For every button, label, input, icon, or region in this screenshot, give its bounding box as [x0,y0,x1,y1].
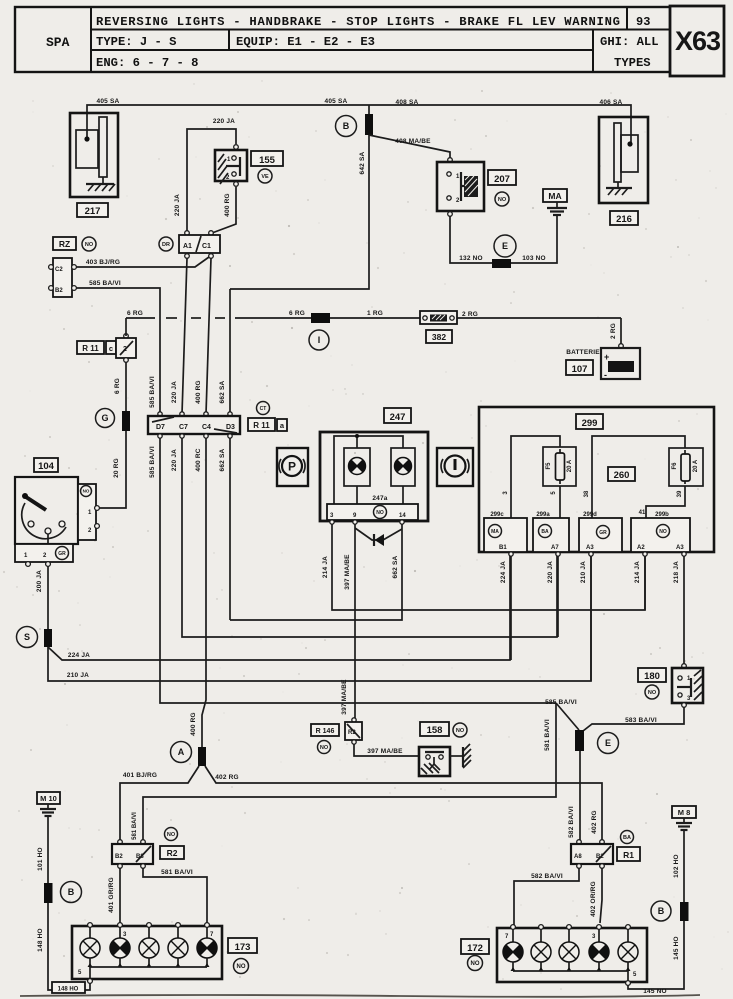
rear lamp cluster 173 [72,923,222,984]
svg-text:M 8: M 8 [678,808,691,817]
circle B (left) [61,882,82,903]
svg-text:132 NO: 132 NO [459,255,483,262]
svg-text:F6: F6 [672,462,678,470]
svg-text:101 HO: 101 HO [37,847,44,871]
label box 180 [638,668,666,682]
svg-text:A1: A1 [183,243,192,250]
wire 101 HO [47,817,49,883]
wire 220 JA from A1 to 155 [187,129,236,233]
svg-text:R2: R2 [167,848,178,858]
wire 662 SA down to D3 [229,289,231,414]
circle NO (RZ) [82,237,96,251]
wire 210 JA [48,556,591,681]
svg-text:NO: NO [167,832,176,838]
label box 299 [576,414,603,429]
wire 582 BA/VI to lamp pin 7 [514,868,579,925]
svg-text:14: 14 [399,513,406,519]
svg-text:NO: NO [659,529,667,535]
splice I (6RG/1RG) [311,313,330,323]
svg-text:NO: NO [648,690,657,696]
label box RZ [53,237,76,250]
svg-text:299b: 299b [655,512,669,518]
wire 214 JA from 247 pin3 [332,524,645,610]
svg-text:NO: NO [498,197,507,203]
svg-text:172: 172 [467,943,483,954]
svg-text:642 SA: 642 SA [359,151,366,174]
svg-text:400 RG: 400 RG [224,193,231,217]
svg-text:397 MA/BE: 397 MA/BE [344,554,351,590]
svg-text:DR: DR [162,242,170,248]
circle NO (R2) [165,828,178,841]
svg-text:EQUIP: E1 - E2 - E3: EQUIP: E1 - E2 - E3 [236,35,375,49]
svg-text:216: 216 [616,214,632,225]
svg-text:38: 38 [584,490,590,497]
wire 200 JA [47,566,49,629]
warning lamp (brake fluid) in 247 [391,448,415,486]
svg-text:1 RG: 1 RG [367,310,383,317]
svg-text:E: E [605,738,611,748]
svg-text:20 A: 20 A [567,459,573,472]
svg-text:220 JA: 220 JA [547,561,554,583]
svg-text:B2: B2 [115,854,123,860]
svg-text:NO: NO [471,961,480,967]
wire 402 RG [205,766,602,842]
svg-text:A3: A3 [586,545,594,551]
wire 581 BA/VI down-left [143,703,556,842]
svg-text:400 RG: 400 RG [195,380,202,404]
svg-text:REVERSING LIGHTS - HANDBRAKE -: REVERSING LIGHTS - HANDBRAKE - STOP LIGH… [96,15,620,29]
svg-text:585 BA/VI: 585 BA/VI [89,280,121,287]
connector 299d (GR A3) [579,518,622,556]
svg-text:180: 180 [644,671,660,682]
svg-text:20 A: 20 A [693,459,699,472]
svg-text:224 JA: 224 JA [500,561,507,583]
svg-text:405 SA: 405 SA [325,98,348,105]
wire 220 JA A1 down to C7 [182,258,187,414]
wire 585 BA/VI from B2 [76,288,160,414]
wire 408 MA/BE to 207 [369,135,450,158]
svg-text:403 BJ/RG: 403 BJ/RG [86,259,120,266]
svg-text:NO: NO [376,510,384,516]
svg-text:220 JA: 220 JA [213,118,235,125]
circle NO (180) [645,685,659,699]
299 internal wiring right [592,436,685,518]
svg-text:MA: MA [491,529,499,535]
svg-text:R 11: R 11 [253,421,270,430]
wire 6 RG down from connector 2 [125,318,127,336]
wire 401 BJ/RG [120,766,199,842]
battery 107 [601,344,640,380]
svg-text:RZ: RZ [59,239,70,249]
svg-text:SPA: SPA [46,35,70,50]
switch 158 (brake fluid level) [419,747,450,776]
svg-text:A2: A2 [637,545,645,551]
svg-text:214 JA: 214 JA [322,556,329,578]
svg-text:S: S [24,632,30,642]
wire 397 MA/BE to 158 [354,744,419,756]
svg-text:582 BA/VI: 582 BA/VI [568,806,575,838]
wire 585 into splice E [556,703,579,730]
svg-text:217: 217 [85,206,101,217]
svg-text:NO: NO [456,728,465,734]
svg-text:C7: C7 [179,424,188,431]
wire 581 BA/VI to lamp pin 7 [143,868,207,923]
circle B (right) [651,901,671,921]
switch 180 (handbrake switch) [672,664,703,708]
fuse F5 20A [543,447,576,486]
wire 582 BA/VI from E to R1 [579,751,581,842]
svg-text:104: 104 [38,461,55,472]
svg-text:X63: X63 [675,26,721,56]
svg-text:148 HO: 148 HO [37,928,44,952]
label box 107 [566,360,593,375]
circle E (upper) [494,235,516,257]
wire 642 SA vertical + to D3 [230,135,369,289]
wire 397 MA/BE from 247 pin9 [354,524,356,719]
svg-text:A7: A7 [551,545,559,551]
switch 104 bottom connector (1,2 GR) [15,544,73,566]
wire 6 RG horizontal (with crossing gaps) [126,317,621,319]
fuse 382 [420,311,457,324]
svg-text:R 11: R 11 [82,344,99,353]
wire 400 RG from 155 to C1 [212,187,236,233]
svg-text:G: G [101,413,108,423]
splice G (6RG/20RG) [122,411,130,431]
svg-text:299: 299 [582,418,598,429]
svg-text:B1: B1 [499,545,507,551]
label box 217 [77,203,108,217]
svg-text:401 BJ/RG: 401 BJ/RG [123,772,157,779]
wire 400 RG C1 down to C4 [206,258,211,414]
warning lamp (handbrake) in 247 [344,448,370,486]
wire 145 HO [628,921,684,989]
splice B (left) [44,883,53,903]
wire 585 BA/VI D7 down [160,438,556,703]
svg-text:247a: 247a [372,495,387,502]
svg-text:GR: GR [599,530,607,536]
svg-text:662 SA: 662 SA [392,555,399,578]
svg-text:B2: B2 [55,288,63,294]
svg-text:408 SA: 408 SA [396,99,419,106]
label box 382 [426,330,452,343]
svg-text:A3: A3 [676,545,684,551]
splice E [575,730,584,751]
instrument cluster 247 box [320,432,428,521]
node B circle [336,116,357,137]
svg-text:145 NO: 145 NO [643,988,667,995]
svg-text:F5: F5 [546,462,552,470]
label box R1 [617,847,640,861]
svg-text:299a: 299a [536,512,550,518]
svg-text:M 10: M 10 [40,794,57,803]
svg-text:200 JA: 200 JA [36,570,43,592]
label box 158 [420,722,449,736]
wire 148 HO [48,903,90,990]
circle BA (R1) [621,831,634,844]
svg-text:260: 260 [614,470,630,481]
svg-text:662 SA: 662 SA [219,380,226,403]
splice S [44,629,52,647]
relay contact 155 [215,145,247,187]
splice A (400 RG) [198,747,206,766]
svg-text:145 HO: 145 HO [673,936,680,960]
svg-text:NO: NO [83,489,90,494]
wire 218 JA to 180 [683,556,685,664]
svg-text:218 JA: 218 JA [673,561,680,583]
svg-text:158: 158 [427,725,443,736]
wire 20 RG to switch 104 [99,431,126,508]
svg-text:581 BA/VI: 581 BA/VI [132,812,138,840]
svg-text:E: E [502,241,508,251]
svg-text:C4: C4 [202,424,211,431]
svg-text:382: 382 [432,332,446,342]
svg-text:214 JA: 214 JA [634,561,641,583]
svg-text:20 RG: 20 RG [113,458,120,478]
svg-text:220 JA: 220 JA [174,194,181,216]
switch 104 side connector (1,2) [78,484,99,540]
circle DR [159,237,173,251]
svg-text:2 RG: 2 RG [610,323,617,339]
connector 247 (3,9,14 NO) [327,504,418,524]
svg-text:c: c [109,344,113,353]
svg-text:D3: D3 [226,424,235,431]
svg-text:155: 155 [259,155,276,166]
ground symbol under MA [547,202,567,215]
wire 400 RG C4 down to A [202,438,206,747]
svg-text:397 MA/BE: 397 MA/BE [341,679,348,715]
svg-text:A: A [178,747,185,757]
svg-text:224 JA: 224 JA [68,652,90,659]
svg-text:406 SA: 406 SA [600,99,623,106]
splice (132/103) [492,259,511,268]
wire 583 BA/VI from 180 to splice E [583,707,684,731]
switch 216 (stop light switch) [599,117,648,203]
wire 662 SA from 247 pin14 to D3 [230,524,402,620]
svg-text:BA: BA [623,835,631,841]
ground MA box [543,189,567,202]
wire 102 HO [683,831,685,902]
svg-text:C1: C1 [202,243,211,250]
svg-text:2 RG: 2 RG [462,311,478,318]
icon brake warning (!) [437,448,473,486]
label box 260 [608,467,635,481]
connector 299c (MA B1) [484,518,527,556]
svg-text:CT: CT [260,406,267,412]
header table frame [15,6,724,76]
connector 299b (NO A2 A3) [631,518,690,556]
label box 207 [488,170,516,185]
svg-text:ENG: 6 - 7 - 8: ENG: 6 - 7 - 8 [96,56,198,70]
svg-text:662 SA: 662 SA [219,448,226,471]
svg-text:41: 41 [639,510,646,516]
svg-text:247: 247 [390,412,406,423]
fuse box 299 [479,407,714,552]
svg-text:D7: D7 [156,424,165,431]
label box 148 HO [52,982,85,993]
circle I [309,330,329,350]
svg-text:585 BA/VI: 585 BA/VI [149,446,156,478]
label box 155 [251,151,283,166]
svg-text:405 SA: 405 SA [97,98,120,105]
splice B (right) [680,902,689,921]
svg-text:402 RG: 402 RG [215,774,239,781]
scan artifact bottom line [20,995,700,997]
wires below 299 with rotated labels [510,556,512,660]
fuse F6 20A [669,448,703,486]
svg-text:220 JA: 220 JA [171,381,178,403]
svg-text:402 RG: 402 RG [591,810,598,834]
svg-text:397 MA/BE: 397 MA/BE [367,748,403,755]
circle E [598,733,619,754]
svg-text:NO: NO [237,964,246,970]
relay R1 [571,840,613,869]
svg-text:408 MA/BE: 408 MA/BE [395,138,431,145]
label box 173 [228,938,257,953]
ignition switch 104 [34,458,58,472]
svg-text:BATTERIE: BATTERIE [566,349,600,356]
svg-text:583 BA/VI: 583 BA/VI [625,717,657,724]
circle A [171,742,192,763]
svg-text:220 JA: 220 JA [171,449,178,471]
svg-text:A8: A8 [574,854,582,860]
svg-text:B: B [68,887,75,897]
svg-text:NO: NO [320,745,329,751]
label box 216 [610,211,638,225]
svg-text:6 RG: 6 RG [289,310,305,317]
svg-text:B: B [658,906,665,916]
svg-text:585 BA/VI: 585 BA/VI [545,699,577,706]
wire 403 BJ/RG [76,257,209,267]
connector A1/C1 [179,231,220,259]
svg-text:103 NO: 103 NO [522,255,546,262]
svg-text:581 BA/VI: 581 BA/VI [161,869,193,876]
wire 132 NO / 103 NO [450,216,557,263]
relay 207 [437,158,484,217]
svg-text:BA: BA [541,529,549,535]
svg-text:R1: R1 [623,850,634,860]
relay R2 [112,840,153,869]
label box 172 [461,939,489,954]
svg-text:401 GR/RG: 401 GR/RG [108,877,115,913]
wire 401 GR/RG to lamp pin 3 [119,868,121,923]
wire 402 OR/RG to lamp pin 3 [600,868,602,923]
svg-text:NO: NO [85,242,94,248]
relay R146 coil [311,724,339,736]
label box R2 [160,846,184,859]
circle NO (207) [495,192,509,206]
rear lamp cluster 172 [497,925,647,986]
circle NO (172) [468,956,483,971]
299 internal wiring left [511,436,560,518]
wire 405/406 SA top rail [87,105,631,144]
label box R 11 / c [77,341,104,354]
svg-text:39: 39 [677,490,683,497]
wire 2 RG to battery [620,318,622,344]
svg-text:I: I [318,335,321,345]
connector 299a (BA A7) [533,518,569,556]
svg-text:299c: 299c [490,512,504,518]
svg-text:+: + [604,352,609,362]
svg-text:581 BA/VI: 581 BA/VI [544,719,551,751]
svg-text:6 RG: 6 RG [114,378,121,394]
ground M 8 [672,806,696,818]
svg-text:C2: C2 [55,267,63,273]
wire 662 SA D3 down [229,438,231,620]
label box 247 [384,408,411,423]
connector strip D7 C7 C4 D3 [148,412,240,438]
svg-text:173: 173 [235,942,251,953]
svg-text:93: 93 [636,15,650,29]
svg-text:585 BA/VI: 585 BA/VI [149,376,156,408]
svg-text:TYPES: TYPES [614,56,651,70]
svg-text:GR: GR [58,551,66,557]
svg-text:VE: VE [261,174,269,180]
svg-text:210 JA: 210 JA [67,672,89,679]
splice B (642 SA) [368,105,370,114]
svg-text:GHI: ALL: GHI: ALL [600,35,659,49]
svg-text:6 RG: 6 RG [127,310,143,317]
ground at 158 [450,744,471,768]
svg-text:-: - [604,370,607,380]
circle G [96,409,115,428]
svg-text:107: 107 [572,364,588,375]
svg-text:148 HO: 148 HO [58,987,79,993]
svg-text:210 JA: 210 JA [580,561,587,583]
svg-text:TYPE: J - S: TYPE: J - S [96,35,176,49]
icon handbrake (P) [277,448,308,486]
circle NO (173) [234,959,249,974]
switch 217 (reversing light switch) [70,113,118,197]
svg-text:B: B [343,121,350,131]
circle VE [258,169,272,183]
label box R 11 / a [248,418,275,431]
diode between pin9 and pin14 wires [355,528,402,546]
ground M 10 [37,792,60,804]
svg-text:400 RG: 400 RG [190,712,197,736]
wire 224 JA [48,556,510,660]
wire 220 JA C7 down [182,438,557,637]
svg-text:P: P [288,460,296,474]
svg-text:400 RC: 400 RC [195,448,202,471]
svg-text:102 HO: 102 HO [673,854,680,878]
svg-text:MA: MA [548,191,561,201]
svg-text:299d: 299d [583,512,597,518]
svg-text:207: 207 [494,174,510,185]
circle CT [257,402,270,415]
svg-text:R 146: R 146 [316,728,335,735]
svg-text:582 BA/VI: 582 BA/VI [531,873,563,880]
connector C2/B2 [49,258,77,297]
247 internal wiring [334,434,403,504]
circle S [17,627,38,648]
svg-text:402 OR/RG: 402 OR/RG [590,881,597,917]
connector 2 (on 6RG wire) [116,334,136,363]
